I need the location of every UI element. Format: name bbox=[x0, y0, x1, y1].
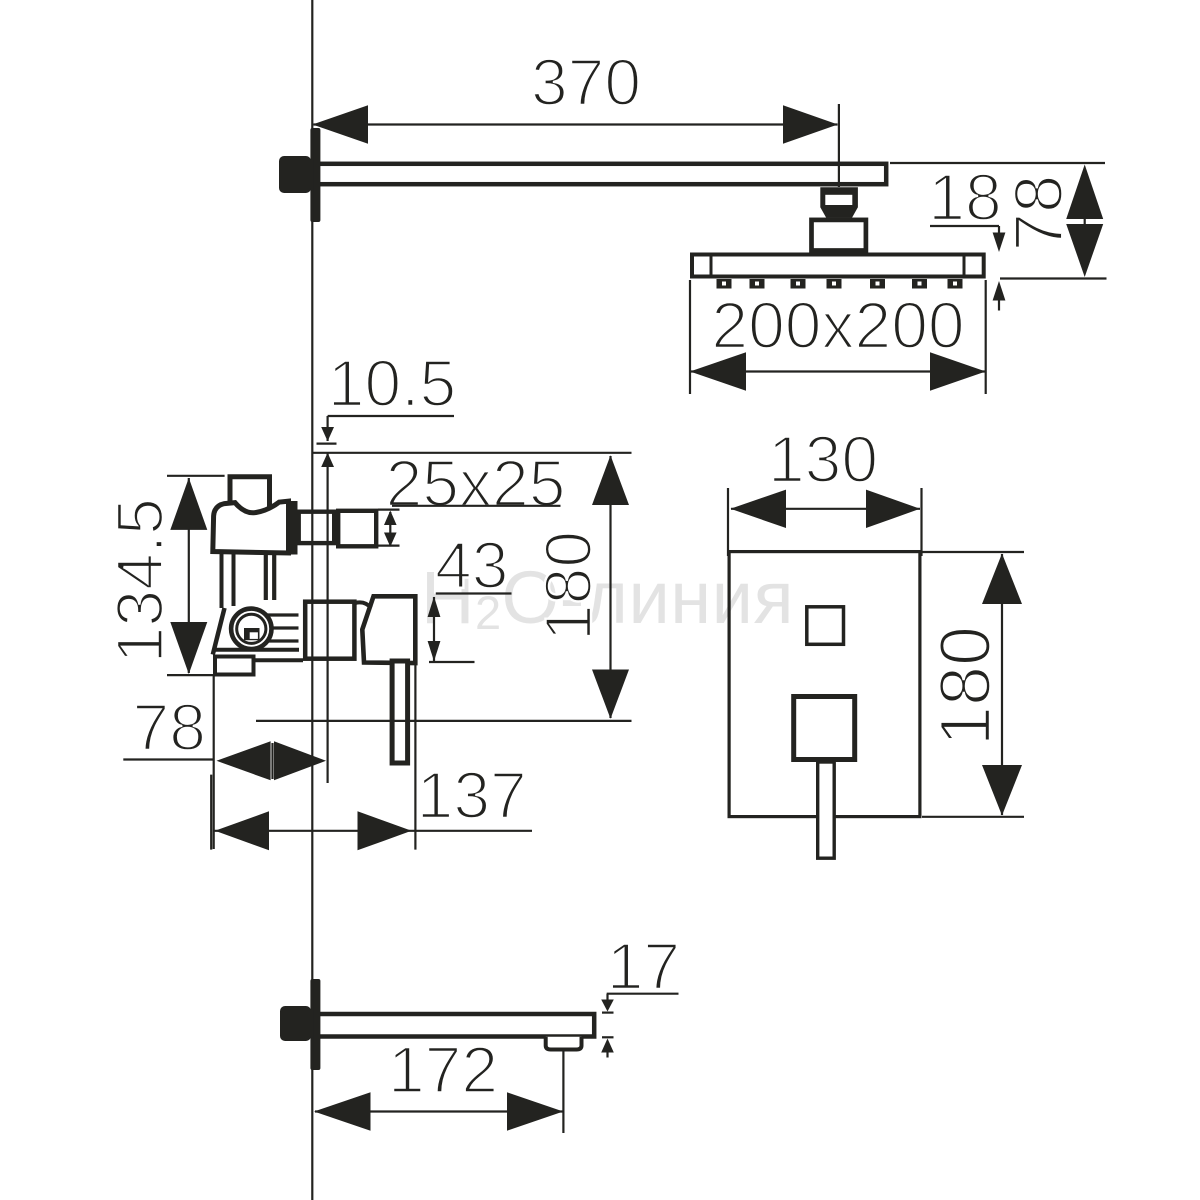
svg-text:134.5: 134.5 bbox=[103, 498, 177, 663]
svg-text:130: 130 bbox=[768, 422, 878, 496]
svg-text:137: 137 bbox=[417, 758, 527, 832]
svg-text:25x25: 25x25 bbox=[386, 446, 566, 520]
svg-text:180: 180 bbox=[531, 531, 605, 641]
svg-text:10.5: 10.5 bbox=[328, 346, 456, 420]
svg-text:43: 43 bbox=[435, 528, 508, 602]
svg-text:370: 370 bbox=[531, 45, 641, 119]
svg-text:172: 172 bbox=[388, 1033, 498, 1107]
svg-text:78: 78 bbox=[1000, 175, 1077, 252]
svg-text:17: 17 bbox=[607, 929, 680, 1003]
svg-text:78: 78 bbox=[132, 690, 205, 764]
svg-text:18: 18 bbox=[928, 160, 1001, 234]
svg-text:200x200: 200x200 bbox=[711, 288, 964, 362]
svg-text:180: 180 bbox=[926, 626, 1006, 746]
